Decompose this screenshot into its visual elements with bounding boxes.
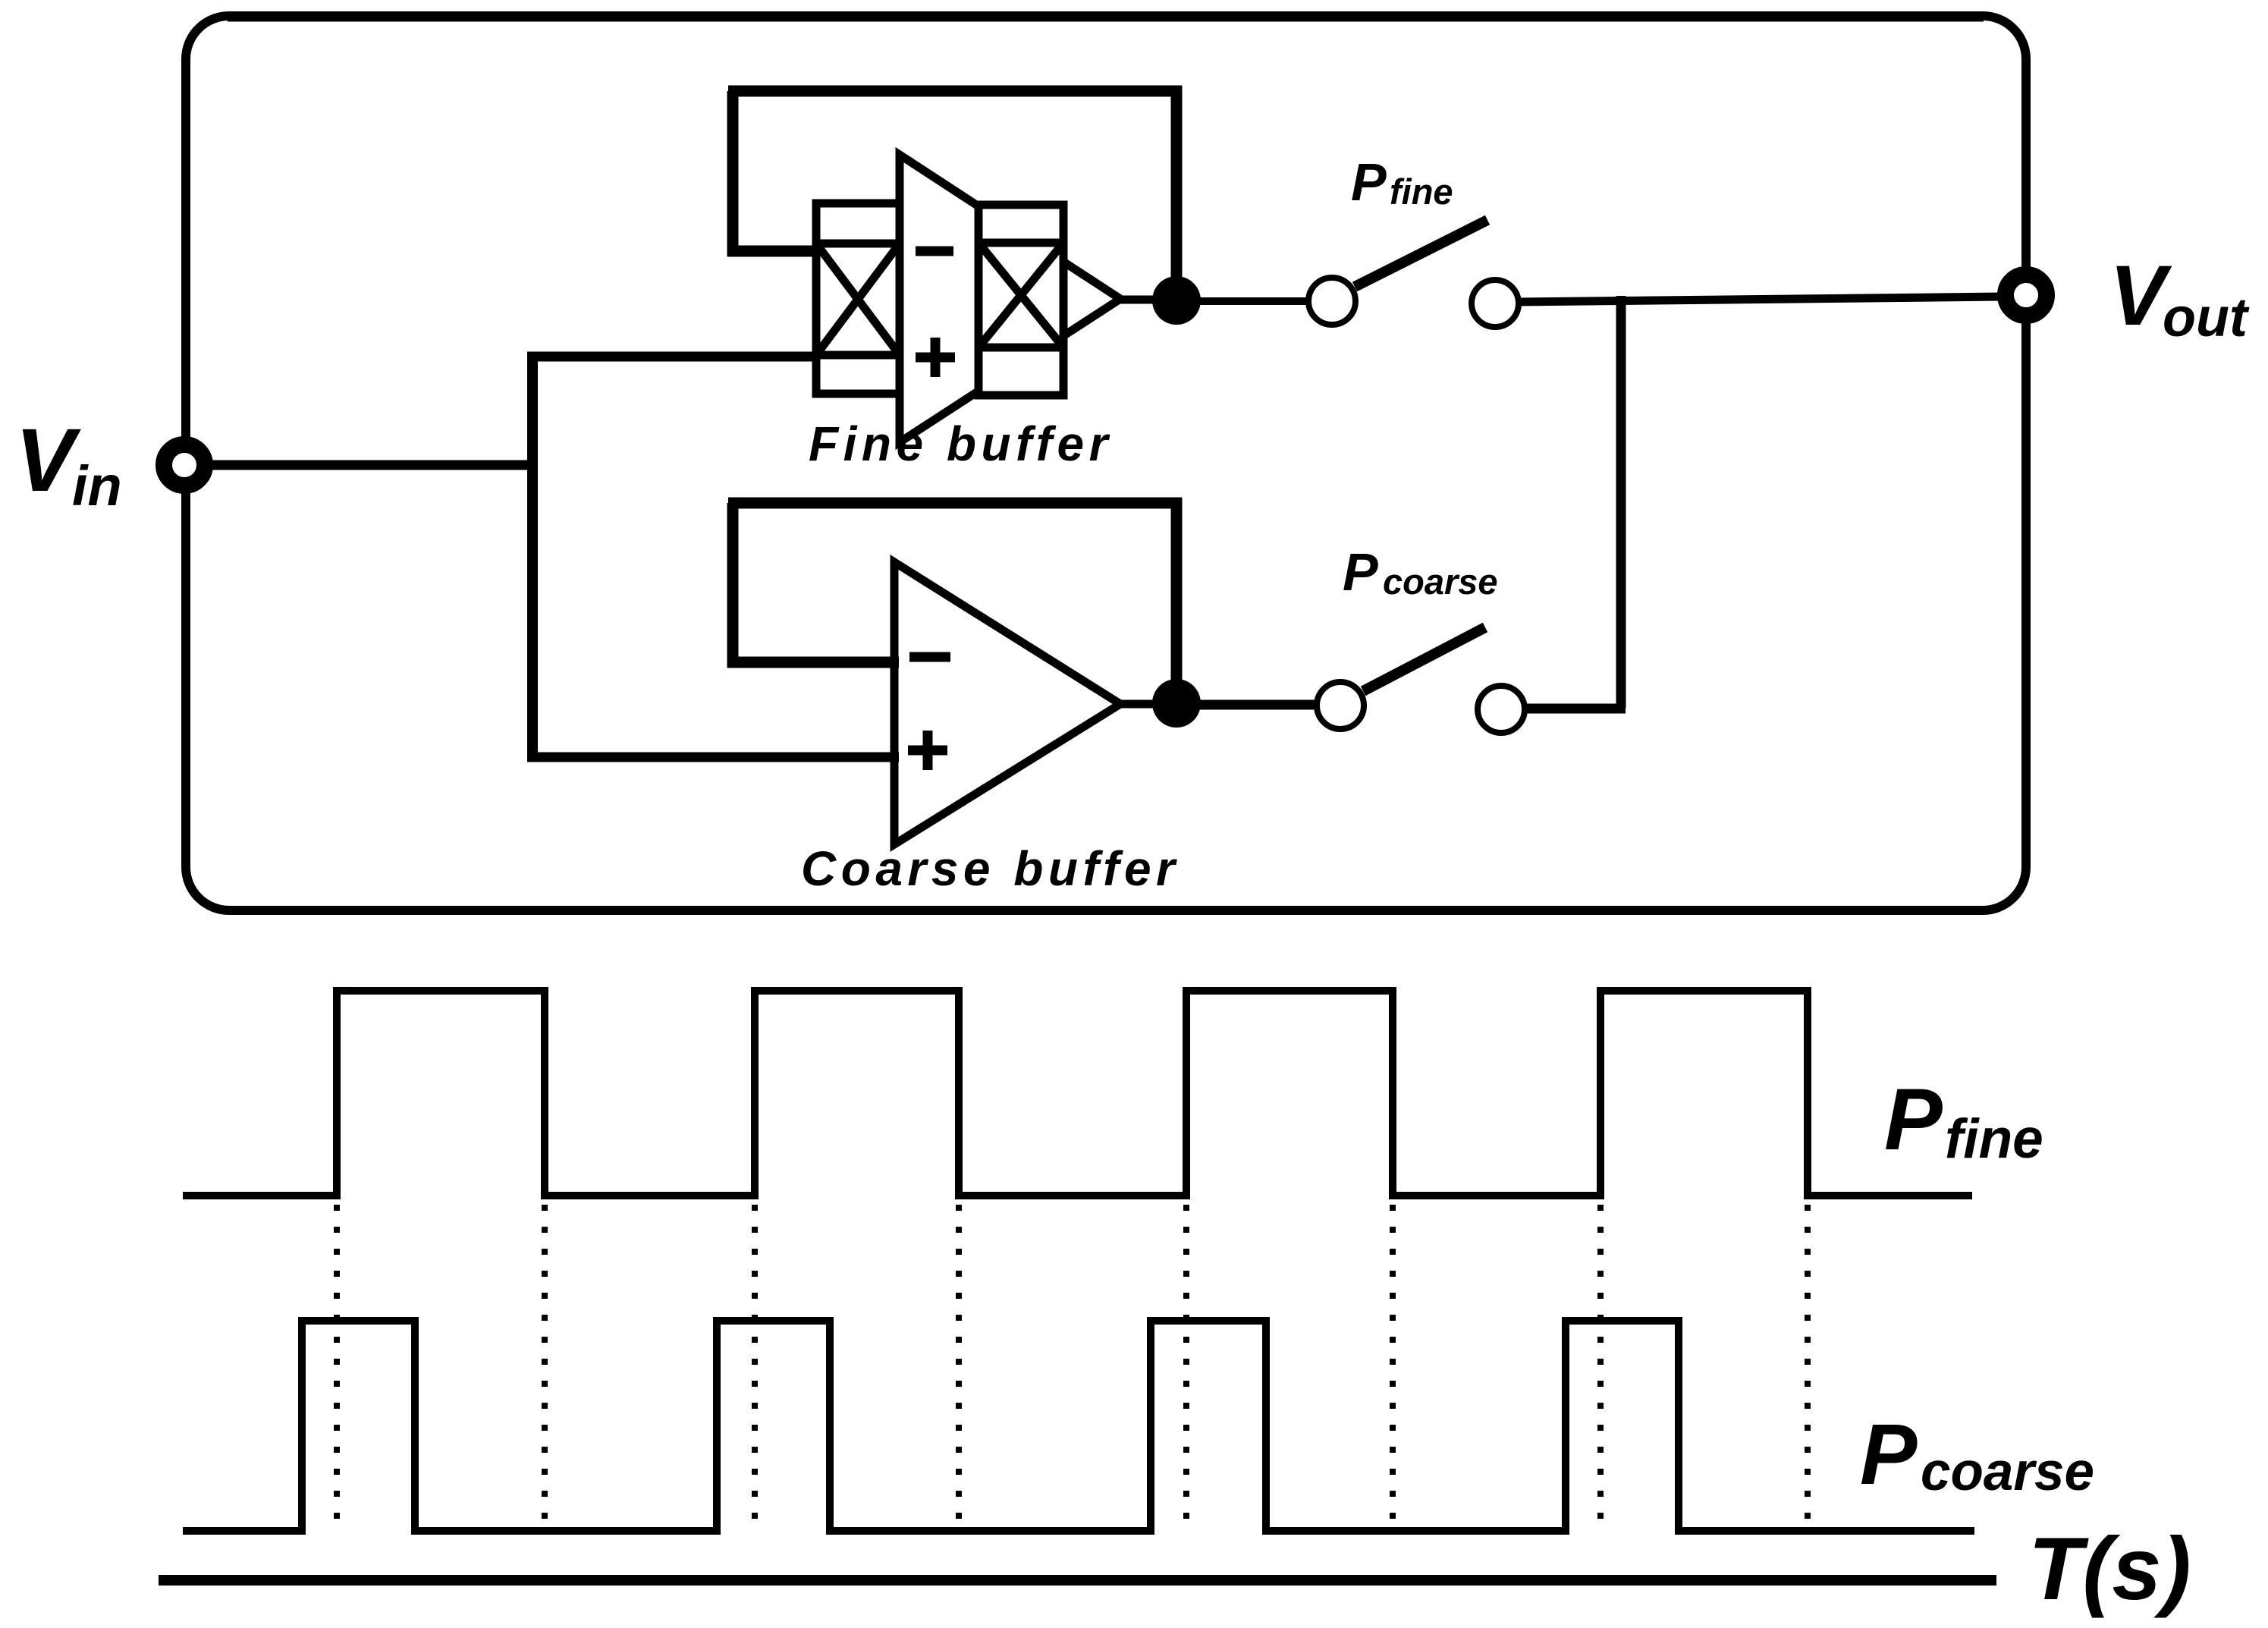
outer boundary top edge overdraw (228, 12, 1984, 22)
wire Vin to junction (184, 460, 537, 470)
switch S1 Pfine lever (1355, 220, 1487, 287)
wire fine feedback: top horizontal (728, 86, 1182, 97)
svg-text:P: P (1860, 1406, 1918, 1502)
wire fine feedback to minus chopper input (727, 246, 819, 257)
wire junction to fine buffer + input (527, 352, 819, 362)
svg-text:T(s): T(s) (2028, 1519, 2191, 1618)
outer circuit boundary box (186, 16, 2026, 910)
node Vin input junction vertical (527, 352, 538, 762)
dotted timing guides at Pfine edges (337, 1205, 1808, 1529)
wire coarse feedback: left vertical (727, 503, 739, 668)
wire coarse feedback: vertical from output node up (1171, 498, 1183, 706)
wire coarse feedback to minus input (727, 657, 899, 668)
svg-text:coarse: coarse (1383, 561, 1498, 602)
time axis (159, 1575, 1996, 1586)
waveform Pfine (183, 991, 1972, 1196)
svg-text:V: V (15, 410, 81, 511)
wire S2 to output bus (1525, 704, 1626, 714)
terminal Vout (2006, 275, 2047, 316)
wire S1 to Vout (1519, 297, 2003, 302)
node coarse output dot (1152, 679, 1201, 728)
wire output bus vertical (1616, 296, 1626, 709)
label minus input U2 (909, 652, 950, 662)
svg-text:coarse: coarse (1921, 1442, 2094, 1502)
svg-text:P: P (1884, 1071, 1943, 1168)
wire junction to coarse buffer + input (527, 753, 899, 762)
label plus input U1 (916, 338, 955, 377)
wire fine feedback: vertical from output node up (1171, 86, 1183, 305)
op-amp U2 coarse buffer triangle (894, 562, 1120, 844)
wire node to switch S2 (1176, 700, 1317, 710)
chopper X2 output box (979, 205, 1063, 395)
wire U2 apex to output node (1120, 700, 1183, 709)
wire coarse feedback: top horizontal (728, 498, 1182, 509)
op-amp U1 fine buffer triangle (900, 155, 1120, 442)
node fine output dot (1152, 276, 1201, 325)
switch S1 Pfine contact left (1308, 278, 1355, 325)
waveform Pcoarse (183, 1321, 1974, 1531)
svg-text:in: in (72, 454, 122, 517)
svg-text:Fine buffer: Fine buffer (809, 416, 1113, 471)
wire fine feedback: left vertical (727, 91, 739, 256)
terminal Vin (164, 445, 205, 486)
svg-text:fine: fine (1945, 1108, 2043, 1170)
svg-text:out: out (2163, 288, 2250, 348)
label minus input U1 (916, 247, 953, 256)
switch S1 Pfine contact right (1472, 280, 1519, 327)
switch S2 Pcoarse contact right (1478, 686, 1525, 733)
svg-text:P: P (1343, 542, 1378, 602)
wire U1 apex to output node (1120, 296, 1183, 304)
wire node to switch S1 (1176, 297, 1308, 305)
label plus input U2 (908, 731, 947, 770)
svg-text:Coarse buffer: Coarse buffer (801, 841, 1180, 896)
chopper X1 input box (816, 203, 900, 394)
switch S2 Pcoarse lever (1363, 627, 1485, 691)
svg-text:fine: fine (1390, 171, 1453, 212)
svg-text:P: P (1351, 152, 1387, 212)
switch S2 Pcoarse contact left (1317, 682, 1364, 729)
